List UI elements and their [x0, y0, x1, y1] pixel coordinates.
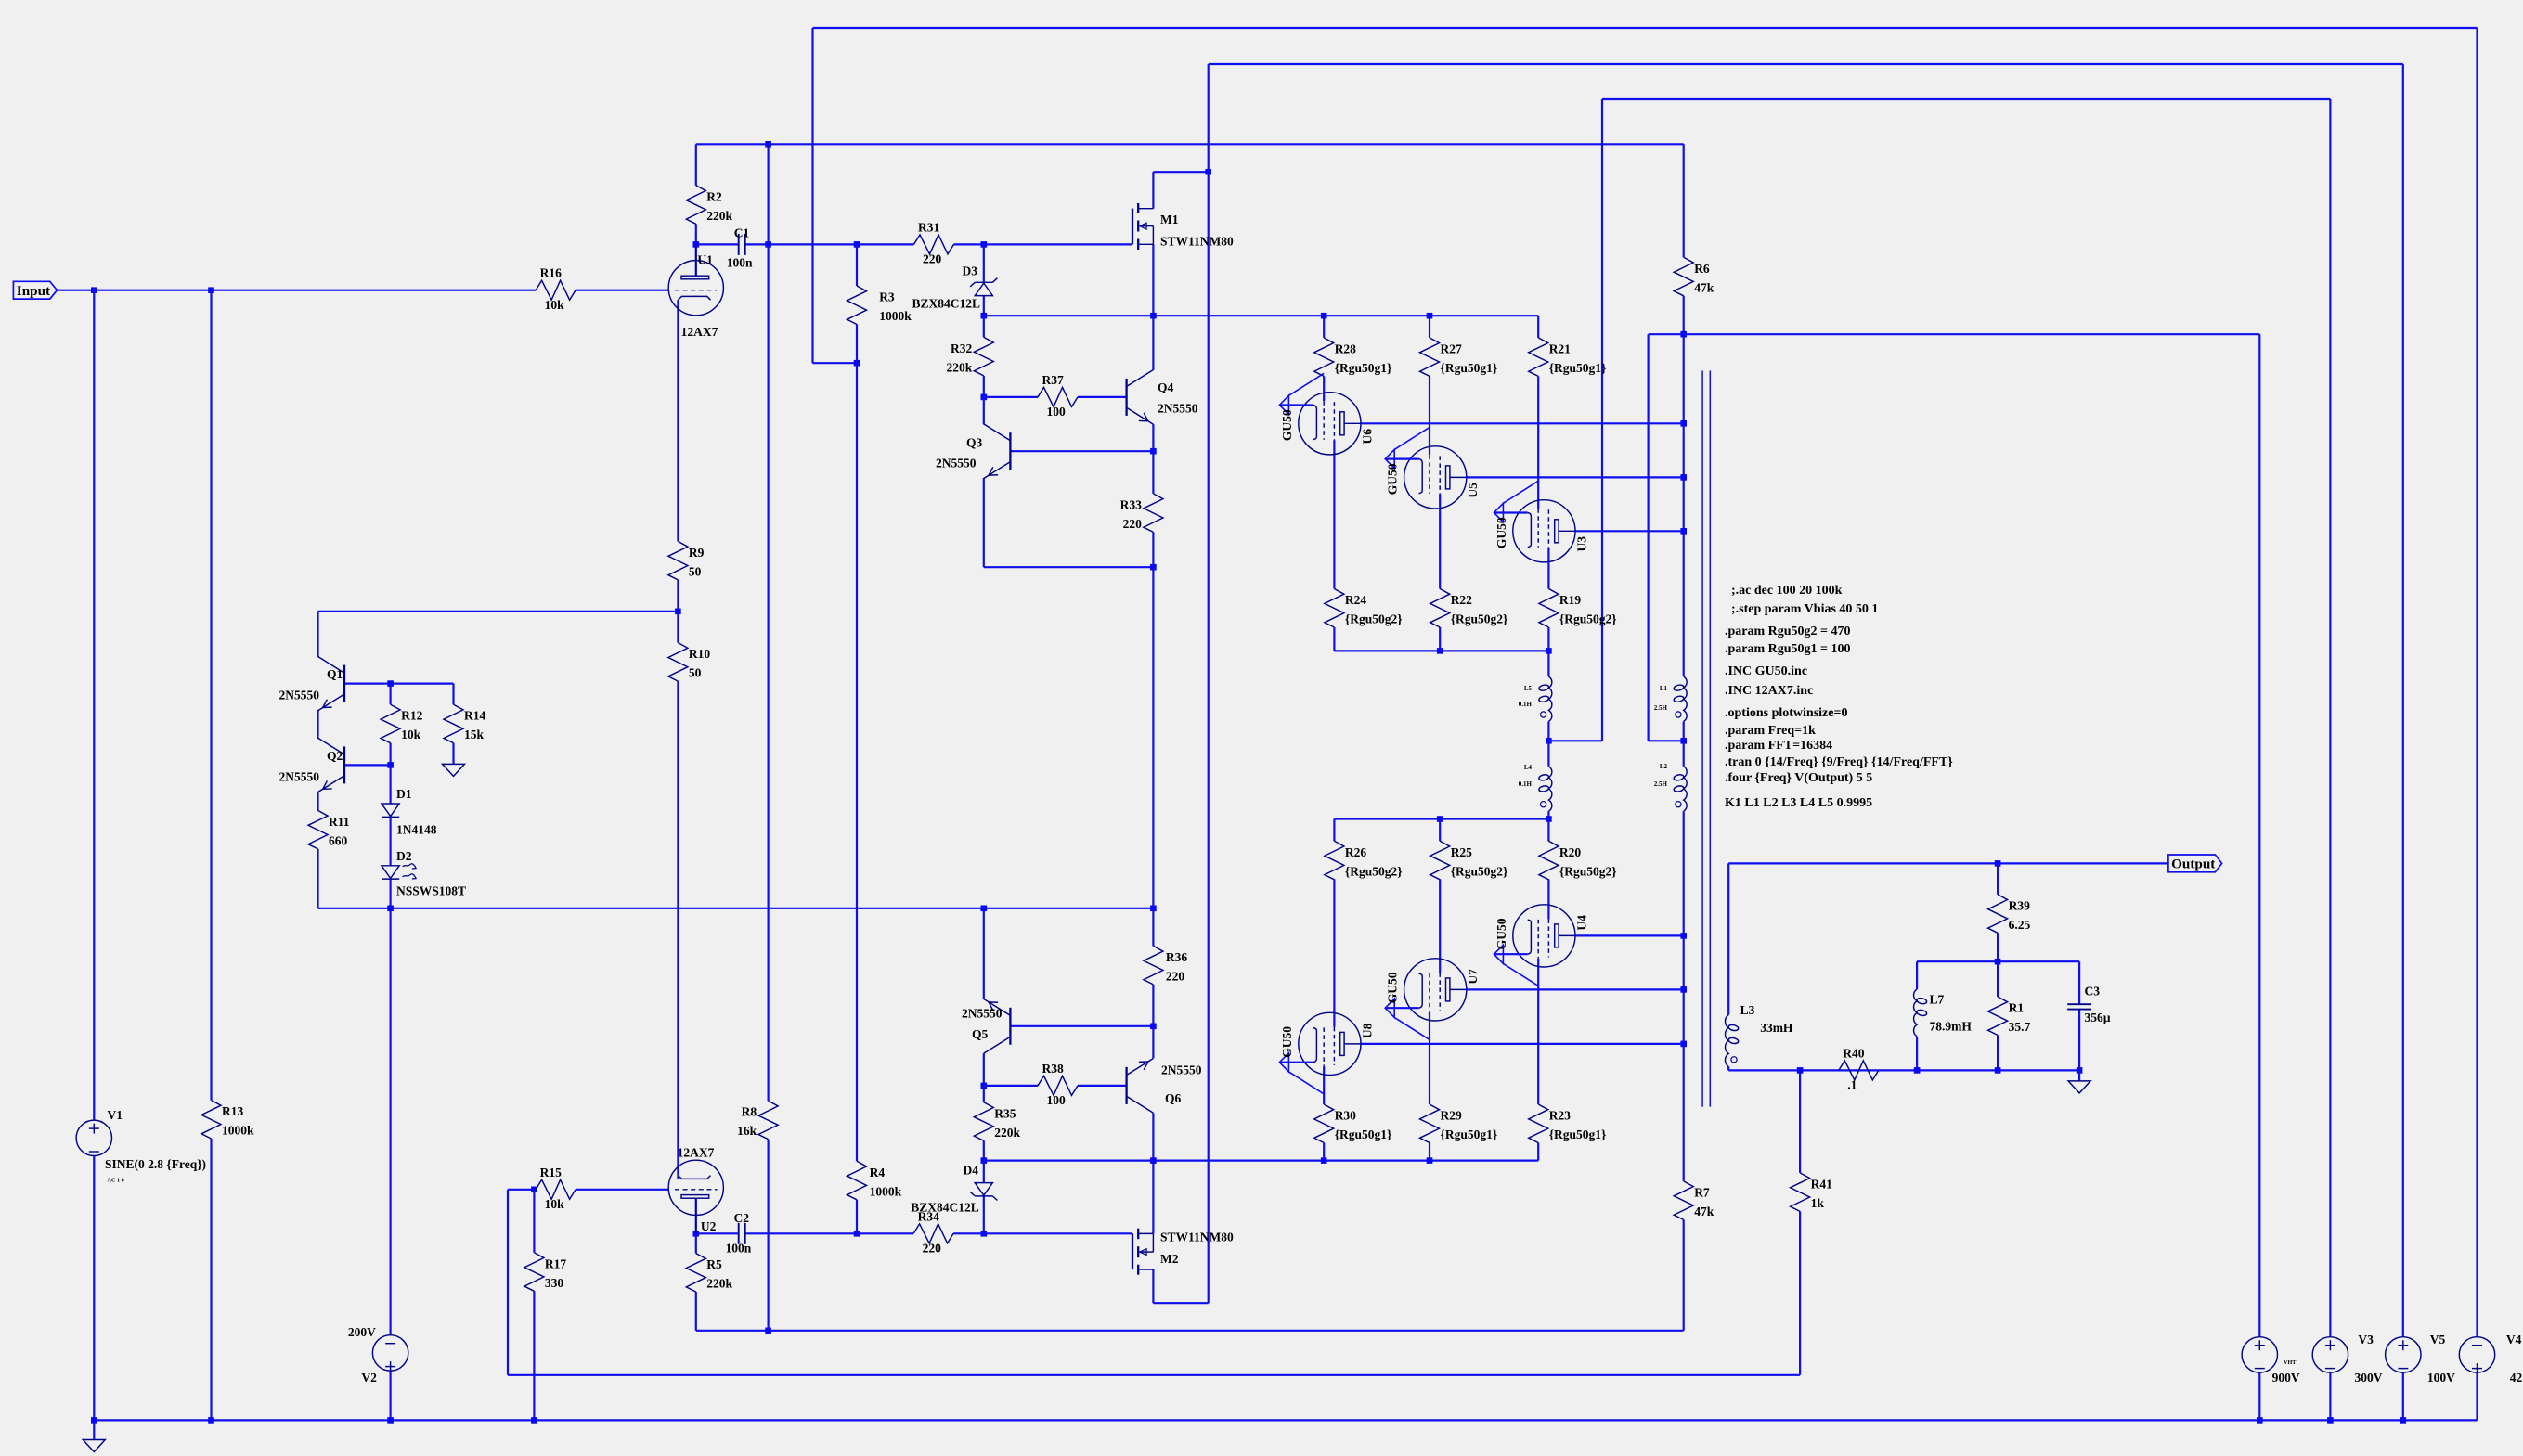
pentode U5	[1385, 427, 1480, 509]
wire U3 g1 pin	[1537, 376, 1539, 509]
MOSFET M2	[1132, 1229, 1153, 1275]
wire x1726 up	[1601, 99, 1603, 741]
svg-text:R33: R33	[1120, 497, 1142, 511]
node M1 drain	[1205, 169, 1211, 175]
wire C3 bottom lead	[2078, 1010, 2080, 1071]
triode U2	[668, 1160, 723, 1233]
node rail340 R28	[1321, 313, 1327, 319]
svg-text:R37: R37	[1042, 373, 1064, 387]
zener diode D4	[911, 1164, 997, 1215]
svg-text:.options plotwinsize=0: .options plotwinsize=0	[1725, 706, 1847, 720]
node rail979 Q5	[981, 906, 988, 912]
svg-text:;.step param Vbias 40 50 1: ;.step param Vbias 40 50 1	[1731, 602, 1878, 616]
svg-text:;.ac dec 100 20 100k: ;.ac dec 100 20 100k	[1731, 584, 1843, 598]
svg-text:R23: R23	[1549, 1109, 1571, 1123]
svg-text:R27: R27	[1441, 341, 1462, 355]
svg-text:D3: D3	[963, 264, 978, 278]
svg-text:{Rgu50g1}: {Rgu50g1}	[1335, 361, 1392, 375]
svg-text:V5: V5	[2430, 1333, 2446, 1346]
ground flag R14	[443, 764, 465, 776]
svg-text:R22: R22	[1451, 593, 1472, 607]
svg-text:0.1H: 0.1H	[1519, 780, 1533, 788]
diode D2	[382, 849, 466, 898]
svg-text:1000k: 1000k	[222, 1124, 254, 1138]
wire R23 bottom	[1537, 1143, 1539, 1161]
wire R4 bottom	[856, 1200, 858, 1234]
resistor R13	[201, 1101, 254, 1140]
wire R26 lead	[1333, 819, 1335, 842]
wire R3 bottom link	[813, 362, 858, 364]
resistor R9	[668, 541, 705, 580]
svg-text:U1: U1	[697, 253, 713, 267]
node plate U8	[1680, 1041, 1687, 1048]
wire D2 bottom	[390, 879, 392, 908]
svg-text:R15: R15	[540, 1166, 562, 1179]
wire R38 left	[984, 1085, 1038, 1087]
wire Q3 base	[1010, 450, 1153, 452]
svg-text:2N5550: 2N5550	[962, 1007, 1003, 1021]
label M1 type	[1160, 235, 1234, 249]
wire fb up to R41	[1799, 1211, 1801, 1374]
wire R12 bottom	[390, 743, 392, 766]
wire plate U5	[1467, 476, 1684, 478]
svg-text:{Rgu50g1}: {Rgu50g1}	[1441, 361, 1498, 375]
wire R13 bottom	[210, 1139, 212, 1420]
wire C1 left	[696, 243, 739, 245]
wire R5 top	[695, 1233, 697, 1253]
svg-text:.param Rgu50g2 = 470: .param Rgu50g2 = 470	[1725, 625, 1851, 638]
wire R2 to C1 node	[695, 224, 697, 244]
wire third feedback rail	[1602, 98, 2330, 100]
node R4 bottom	[854, 1231, 860, 1237]
svg-text:R5: R5	[706, 1257, 722, 1271]
svg-text:L2: L2	[1660, 763, 1668, 770]
svg-text:L3: L3	[1740, 1003, 1755, 1017]
svg-text:2N5550: 2N5550	[936, 457, 977, 470]
svg-text:R4: R4	[870, 1166, 886, 1179]
wire U5 g2 pin	[1439, 494, 1441, 588]
node D3 bottom	[981, 313, 988, 319]
resistor R2	[686, 186, 732, 225]
svg-text:R35: R35	[994, 1106, 1016, 1120]
node rail979 D2	[387, 906, 394, 912]
wire to R14	[391, 682, 454, 684]
svg-text:R19: R19	[1559, 593, 1581, 607]
svg-text:R38: R38	[1042, 1062, 1064, 1076]
wire Q4 emitter	[1152, 424, 1154, 451]
resistor R34	[913, 1209, 953, 1255]
node L4 bottom	[1546, 816, 1552, 822]
wire U6 g2 pin	[1333, 440, 1335, 588]
svg-text:330: 330	[545, 1276, 564, 1290]
triode U1	[668, 244, 723, 315]
svg-text:100: 100	[1047, 1093, 1067, 1107]
svg-text:220: 220	[1166, 969, 1185, 983]
wire R14 gnd lead	[452, 743, 454, 765]
node D3 top	[981, 241, 988, 248]
transformer core line 2	[1709, 371, 1711, 1107]
node Q1 base	[387, 680, 394, 687]
svg-text:47k: 47k	[1694, 280, 1714, 294]
wire R8 column	[767, 144, 769, 1101]
wire x1776 down	[1647, 334, 1649, 741]
wire M1 source down	[1152, 244, 1154, 316]
svg-text:R17: R17	[545, 1256, 566, 1270]
node rail1251 R30	[1321, 1157, 1327, 1164]
resistor R27	[1420, 338, 1498, 377]
inductor L1	[1654, 676, 1687, 722]
resistor R26	[1325, 841, 1403, 880]
wire R29 bottom	[1429, 1143, 1430, 1161]
svg-text:L5: L5	[1524, 685, 1533, 692]
svg-text:R10: R10	[689, 647, 710, 661]
wire Q4 collector up	[1152, 316, 1154, 370]
svg-text:R21: R21	[1549, 341, 1571, 355]
node output R39	[1995, 860, 2001, 867]
wire R7 bottom	[1683, 1219, 1685, 1330]
svg-text:R13: R13	[222, 1104, 243, 1118]
wire L1 bottom lead	[1683, 722, 1685, 741]
svg-text:356µ: 356µ	[2085, 1011, 2111, 1024]
node rail1251 R29	[1427, 1157, 1433, 1164]
resistor R21	[1529, 338, 1607, 377]
wire R35 top	[983, 1086, 985, 1102]
wire Q1 collector up	[317, 612, 318, 656]
wire R22 lead	[1439, 627, 1441, 651]
wire 900V bottom	[2258, 1372, 2260, 1420]
svg-text:{Rgu50g2}: {Rgu50g2}	[1451, 612, 1508, 626]
svg-text:BZX84C12L: BZX84C12L	[912, 296, 980, 310]
node R35 D4	[981, 1157, 988, 1164]
wire R30 bottom	[1323, 1143, 1325, 1161]
wire Q5 base	[1010, 1025, 1153, 1027]
svg-text:L1: L1	[1660, 685, 1668, 692]
svg-text:100: 100	[1047, 405, 1067, 419]
wire U7 g2 pin	[1439, 879, 1441, 973]
wire R20 lead	[1547, 819, 1549, 842]
svg-text:R39: R39	[2009, 898, 2030, 912]
svg-text:R24: R24	[1345, 593, 1366, 607]
ground flag output	[2068, 1081, 2090, 1093]
wire R12 top	[390, 684, 392, 705]
wire R14 top lead	[452, 684, 454, 705]
svg-text:C3: C3	[2085, 984, 2101, 998]
wire U1 plate lead	[695, 244, 697, 276]
wire D1 top lead	[390, 765, 392, 804]
zener diode D3	[912, 264, 997, 311]
wire plate U4	[1575, 934, 1683, 936]
svg-text:VHT: VHT	[2284, 1359, 2297, 1366]
svg-text:{Rgu50g2}: {Rgu50g2}	[1451, 864, 1508, 878]
wire C3 gnd stub	[2078, 1070, 2080, 1081]
svg-text:GU50: GU50	[1280, 409, 1294, 441]
wire L7 bottom lead	[1916, 1037, 1918, 1071]
svg-text:100n: 100n	[727, 255, 753, 269]
wire U6 g1 pin	[1323, 376, 1325, 401]
wire ground rail	[94, 1419, 2477, 1421]
svg-text:Q5: Q5	[972, 1027, 989, 1041]
node R9 R10	[675, 609, 681, 615]
svg-text:220: 220	[1123, 517, 1143, 531]
voltage source V3	[2312, 1333, 2383, 1385]
wire M2 drain right	[1153, 1302, 1208, 1304]
svg-text:C1: C1	[734, 225, 750, 239]
voltage source VHT 900V	[2242, 1337, 2300, 1385]
node rail1153 R1	[1995, 1067, 2001, 1074]
svg-text:R40: R40	[1843, 1046, 1864, 1060]
wire R37 right to Q4 base	[1078, 396, 1127, 398]
wire Q1 emitter to Q2 collector	[317, 711, 318, 738]
wire R19 lead	[1547, 627, 1549, 651]
svg-text:Q2: Q2	[327, 749, 343, 763]
node gnd 900V	[2257, 1417, 2263, 1424]
capacitor C2	[726, 1211, 752, 1255]
svg-text:R1: R1	[2009, 1001, 2025, 1015]
wire L5 top lead	[1547, 651, 1549, 676]
wire Q5 emitter up	[983, 908, 985, 999]
node R3 bottom	[854, 360, 860, 367]
node plate U3	[1680, 528, 1687, 535]
wire M1 drain right	[1153, 171, 1208, 173]
wire R17 top	[533, 1190, 535, 1253]
wire tap to x1726	[1548, 740, 1602, 741]
node R3 top	[854, 241, 860, 248]
spice directives text block	[1725, 584, 1953, 810]
svg-text:U2: U2	[701, 1219, 717, 1233]
wire U8 g1 pin	[1323, 1066, 1325, 1104]
wire left top column	[811, 28, 813, 363]
wire R6 top	[1683, 144, 1685, 257]
wire x1776 to tap	[1649, 740, 1684, 741]
wire primary top	[1683, 334, 1685, 676]
MOSFET M1	[1132, 203, 1153, 250]
svg-text:GU50: GU50	[1494, 918, 1508, 949]
wire R37 left	[984, 396, 1038, 398]
wire output top rail	[1728, 862, 2168, 864]
svg-text:R29: R29	[1441, 1109, 1462, 1123]
label M2 type	[1160, 1231, 1234, 1244]
svg-text:200V: 200V	[348, 1325, 376, 1339]
wire D3 to M1 gate	[984, 243, 1132, 245]
resistor R7	[1674, 1181, 1714, 1220]
svg-text:33mH: 33mH	[1760, 1021, 1793, 1035]
wire rail979 left	[318, 908, 1154, 909]
label U2 type	[678, 1145, 715, 1159]
transistor Q3	[936, 424, 1010, 479]
svg-text:STW11NM80: STW11NM80	[1160, 235, 1234, 249]
svg-text:D2: D2	[396, 849, 412, 863]
node rail155 R8	[765, 141, 771, 148]
wire rail1434	[696, 1330, 1684, 1332]
resistor R11	[308, 810, 350, 849]
pentode U4	[1494, 905, 1588, 986]
svg-text:GU50: GU50	[1386, 463, 1400, 495]
wire fb left down	[507, 1190, 509, 1375]
voltage source V4	[2459, 1333, 2522, 1385]
wire Q3 emitter to R33	[984, 566, 1154, 568]
svg-text:{Rgu50g1}: {Rgu50g1}	[1441, 1127, 1498, 1141]
transistor Q5	[962, 999, 1010, 1053]
resistor R24	[1325, 589, 1403, 628]
wire R13 top	[210, 290, 212, 1101]
svg-text:50: 50	[689, 666, 702, 680]
svg-text:{Rgu50g1}: {Rgu50g1}	[1549, 1127, 1607, 1141]
svg-text:BZX84C12L: BZX84C12L	[911, 1200, 979, 1214]
wire L4 top lead	[1547, 741, 1549, 766]
wire g2 rail top	[1334, 650, 1548, 651]
node gnd R17	[531, 1417, 537, 1424]
wire R36 top lead	[1152, 908, 1154, 947]
wire R39 leads	[1997, 863, 1999, 961]
node plate U6	[1680, 420, 1687, 427]
inductor L3	[1725, 1003, 1792, 1066]
wire R3 body leads	[856, 244, 858, 363]
wire top feedback rail	[813, 27, 2478, 29]
svg-text:{Rgu50g2}: {Rgu50g2}	[1345, 864, 1403, 878]
svg-text:V2: V2	[361, 1371, 377, 1385]
node R33 bottom	[1150, 564, 1157, 571]
diode D1	[382, 787, 437, 837]
wire R35 bottom	[983, 1140, 985, 1160]
svg-text:900V: 900V	[2272, 1371, 2300, 1385]
svg-text:10k: 10k	[545, 1197, 565, 1211]
svg-text:GU50: GU50	[1494, 517, 1508, 548]
wire L5 bottom lead	[1547, 722, 1549, 741]
resistor R12	[381, 704, 422, 743]
node plate U5	[1680, 474, 1687, 481]
svg-text:D1: D1	[396, 787, 412, 801]
svg-text:{Rgu50g2}: {Rgu50g2}	[1559, 864, 1617, 878]
wire B+ rail y155	[696, 143, 1684, 145]
port flag Output	[2168, 855, 2222, 872]
resistor R25	[1430, 841, 1508, 880]
wire R17 bottom	[533, 1291, 535, 1420]
wire V1 bottom	[93, 1156, 95, 1421]
svg-text:220k: 220k	[706, 1277, 732, 1291]
svg-text:.tran 0 {14/Freq} {9/Freq} {14: .tran 0 {14/Freq} {9/Freq} {14/Freq/FFT}	[1725, 755, 1953, 769]
transistor Q1	[279, 656, 345, 711]
svg-text:1k: 1k	[1811, 1196, 1825, 1210]
svg-text:300V: 300V	[2355, 1371, 2383, 1385]
wire D1 to D2	[390, 817, 392, 865]
node rail1153 R41	[1797, 1067, 1804, 1074]
wire R11 bottom	[317, 849, 318, 908]
svg-text:12AX7: 12AX7	[678, 1145, 715, 1159]
resistor R33	[1120, 494, 1163, 533]
wire rail659	[318, 611, 679, 612]
node plate U7	[1680, 986, 1687, 993]
wire L3 bottom lead	[1727, 1066, 1729, 1070]
wire plate U6	[1361, 422, 1683, 424]
svg-text:V1: V1	[108, 1108, 123, 1122]
svg-text:C2: C2	[734, 1211, 750, 1225]
wire V5 column	[2402, 64, 2404, 1337]
wire D4 to M2 gate	[984, 1232, 1132, 1234]
resistor R19	[1539, 589, 1617, 628]
node R15 R17	[531, 1187, 537, 1193]
svg-text:.INC 12AX7.inc: .INC 12AX7.inc	[1725, 684, 1813, 698]
wire g1 bias rail top	[984, 315, 1538, 316]
svg-text:42: 42	[2510, 1371, 2523, 1385]
resistor R3	[847, 286, 912, 325]
wire M2 drain down	[1152, 1269, 1154, 1303]
svg-text:STW11NM80: STW11NM80	[1160, 1231, 1234, 1244]
svg-text:Input: Input	[17, 283, 50, 299]
wire R9 to node	[677, 580, 679, 612]
wire R32 top	[983, 316, 985, 337]
svg-text:R11: R11	[329, 815, 350, 829]
node D4 bottom	[981, 1231, 988, 1237]
label U1	[697, 253, 713, 267]
resistor R35	[974, 1102, 1020, 1141]
node rail892 R25	[1437, 816, 1443, 822]
svg-text:.param Freq=1k: .param Freq=1k	[1725, 724, 1816, 738]
svg-text:100V: 100V	[2427, 1371, 2455, 1385]
svg-text:GU50: GU50	[1386, 972, 1400, 1003]
wire V4 bottom	[2476, 1372, 2478, 1420]
node U2 plate	[693, 1231, 700, 1237]
wire D4 bottom lead	[983, 1196, 985, 1233]
svg-text:R2: R2	[706, 189, 722, 203]
svg-text:U4: U4	[1574, 915, 1588, 931]
capacitor C1	[727, 225, 753, 269]
node L5 L4 tap	[1546, 738, 1552, 744]
svg-text:100n: 100n	[726, 1242, 752, 1256]
node rail1153 L7	[1914, 1067, 1921, 1074]
resistor R29	[1420, 1104, 1498, 1143]
wire C3 top lead	[2078, 961, 2080, 1004]
wire V5 bottom	[2402, 1372, 2404, 1420]
inductor L7	[1914, 989, 1973, 1037]
svg-text:R7: R7	[1694, 1185, 1710, 1199]
svg-text:U3: U3	[1574, 536, 1588, 552]
wire to R33	[1152, 451, 1154, 494]
node L1 L2 tap	[1680, 738, 1687, 744]
voltage source V5	[2386, 1333, 2456, 1385]
svg-text:R28: R28	[1335, 341, 1356, 355]
wire V1 top	[93, 290, 95, 1120]
wire R41 top	[1799, 1070, 1801, 1173]
node R32 R37	[981, 394, 988, 401]
svg-text:1000k: 1000k	[879, 309, 912, 323]
wire D4 top lead	[983, 1161, 985, 1183]
svg-text:M2: M2	[1160, 1252, 1179, 1266]
wire main column mid	[1152, 567, 1154, 908]
wire Q6 emitter up	[1152, 1026, 1154, 1059]
wire U1 cathode to R9	[677, 300, 679, 541]
wire R38 right to Q6 base	[1078, 1085, 1127, 1087]
pentode U3	[1494, 481, 1588, 562]
svg-text:{Rgu50g2}: {Rgu50g2}	[1559, 612, 1617, 626]
wire L7 top lead	[1916, 961, 1918, 989]
resistor R30	[1314, 1104, 1392, 1143]
wire plate U8	[1361, 1043, 1683, 1045]
node Q4 emitter Q3 base	[1150, 448, 1157, 455]
svg-text:R9: R9	[689, 546, 705, 560]
svg-text:R20: R20	[1559, 845, 1581, 859]
wire R33 to node	[1152, 532, 1154, 567]
resistor R4	[847, 1161, 902, 1200]
wire Q1 base	[344, 682, 391, 684]
wire output bottom rail	[1728, 1069, 2079, 1071]
svg-text:220: 220	[923, 252, 942, 266]
resistor R41	[1791, 1173, 1832, 1212]
wire R10 top	[677, 612, 679, 643]
wire D3 top lead	[983, 244, 985, 282]
svg-text:16k: 16k	[737, 1124, 757, 1138]
wire zobel mid rail	[1917, 960, 2079, 962]
svg-text:U6: U6	[1360, 429, 1374, 445]
